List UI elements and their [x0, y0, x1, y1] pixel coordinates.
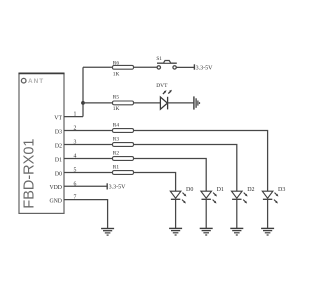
svg-text:VDD: VDD [49, 185, 62, 191]
svg-text:D1: D1 [55, 157, 62, 163]
wire R2 to D1 column [134, 159, 207, 192]
wire R6 to S1 [134, 66, 158, 68]
wire VT pin to riser [64, 116, 83, 118]
wire D1 pin to R2 [64, 158, 113, 160]
ground (right of DVT, sideways) [194, 96, 200, 109]
resistor R2 [113, 157, 134, 161]
junction at R5 row [81, 101, 85, 105]
wire R1 to D0 column [134, 173, 176, 192]
wire D1 LED to ground [205, 199, 207, 228]
svg-text:R5: R5 [113, 94, 120, 100]
wire R4 to D3 column [134, 131, 268, 192]
wire R6 row left [83, 66, 113, 68]
wire riser VT up to R6 row [82, 67, 84, 116]
wire D3 pin to R4 [64, 130, 113, 132]
antenna circle ANT [21, 78, 26, 83]
svg-text:R4: R4 [113, 122, 120, 128]
svg-text:1K: 1K [113, 106, 120, 112]
wire D3 LED to ground [267, 199, 269, 228]
LED D1 [201, 191, 217, 203]
wire D0 pin to R1 [64, 172, 113, 174]
LED D2 [232, 191, 248, 203]
LED D3 [262, 191, 278, 203]
ground (module GND) [101, 229, 114, 236]
wire S1 to supply [176, 66, 194, 68]
wire R5 to DVT [134, 102, 161, 104]
svg-text:D0: D0 [55, 171, 62, 177]
svg-text:R3: R3 [113, 136, 120, 142]
ground (D0) [169, 228, 182, 235]
svg-text:D0: D0 [186, 187, 193, 193]
svg-text:1K: 1K [113, 72, 120, 78]
svg-text:R1: R1 [113, 164, 120, 170]
svg-text:DVT: DVT [156, 83, 168, 89]
wire R3 to D2 column [134, 145, 237, 192]
wire D2 pin to R3 [64, 144, 113, 146]
resistor R5 [113, 101, 134, 105]
svg-text:FBD-RX01: FBD-RX01 [22, 139, 38, 209]
ground (D3) [261, 228, 274, 235]
wire GND pin down [64, 200, 108, 229]
svg-text:S1: S1 [156, 56, 162, 62]
resistor R6 [113, 65, 134, 69]
ground (D1) [200, 228, 213, 235]
svg-text:3.3-5V: 3.3-5V [196, 66, 213, 72]
resistor R4 [113, 129, 134, 133]
svg-text:R6: R6 [113, 60, 120, 66]
wire VDD pin to supply [64, 185, 107, 187]
wire R5 row from junction [83, 102, 113, 104]
svg-text:D3: D3 [278, 187, 285, 193]
svg-text:ANT: ANT [28, 78, 44, 85]
switch S1 [157, 61, 177, 70]
svg-text:D1: D1 [217, 187, 224, 193]
wire DVT to ground [168, 102, 194, 104]
svg-text:R2: R2 [113, 150, 120, 156]
svg-text:D2: D2 [247, 187, 254, 193]
ground (D2) [230, 228, 243, 235]
wire D2 LED to ground [236, 199, 238, 228]
svg-text:GND: GND [49, 199, 62, 205]
LED D0 [170, 191, 186, 203]
svg-text:VT: VT [54, 116, 62, 122]
resistor R1 [113, 171, 134, 175]
power terminal 3.3-5V (VDD) [106, 183, 108, 189]
wire D0 LED to ground [175, 199, 177, 228]
svg-text:3.3-5V: 3.3-5V [109, 185, 126, 191]
LED DVT [160, 90, 172, 110]
resistor R3 [113, 143, 134, 147]
svg-text:D3: D3 [55, 129, 62, 135]
power terminal 3.3-5V (S1) [193, 64, 195, 69]
svg-text:D2: D2 [55, 143, 62, 149]
module FBD-RX01 box [19, 73, 65, 213]
